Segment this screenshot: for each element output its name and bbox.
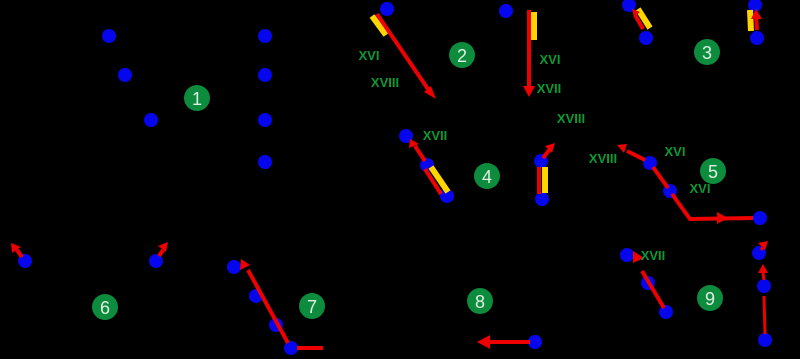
- red arrow 5a: [617, 144, 645, 160]
- ball 7d: [284, 341, 298, 355]
- step marker 8: [467, 288, 493, 314]
- ball 9b: [641, 276, 655, 290]
- step marker 9: [697, 285, 723, 311]
- ball 3c: [748, 0, 762, 12]
- yellow trail 3a: [638, 9, 650, 28]
- red path 5c: [672, 194, 753, 219]
- svg-text:XVI: XVI: [359, 48, 380, 63]
- ball 9a: [620, 248, 634, 262]
- ball 1g: [258, 155, 272, 169]
- ball 1a: [102, 29, 116, 43]
- step marker 5: [700, 158, 726, 184]
- yellow trail 4a: [431, 167, 448, 192]
- red arrow 2a: [377, 14, 436, 99]
- red line 7b: [297, 346, 323, 350]
- ball 7c: [269, 318, 283, 332]
- svg-text:XVIII: XVIII: [589, 151, 617, 166]
- ball 3d: [750, 31, 764, 45]
- red arrow 7a: [240, 259, 288, 343]
- red arrow 3b: [751, 9, 762, 30]
- svg-text:XVI: XVI: [690, 181, 711, 196]
- step marker 6: [92, 294, 118, 320]
- ball 7b: [249, 289, 263, 303]
- red arrow 9a: [633, 251, 664, 308]
- step marker 7: [299, 293, 325, 319]
- step marker 2: [449, 42, 475, 68]
- svg-text:6: 6: [100, 298, 110, 318]
- ball 5c: [753, 211, 767, 225]
- ball 1f: [258, 113, 272, 127]
- svg-text:4: 4: [482, 167, 492, 187]
- svg-text:XVII: XVII: [537, 81, 562, 96]
- ball 3b: [639, 31, 653, 45]
- red arrow 6a: [11, 243, 22, 257]
- ball 9d: [758, 333, 772, 347]
- red arrow 9d: [758, 241, 768, 250]
- red arrow 6b: [158, 242, 168, 256]
- yellow trail 2a: [372, 16, 386, 35]
- red line 5b: [653, 167, 668, 188]
- svg-text:XVII: XVII: [641, 248, 666, 263]
- ball 5a: [643, 156, 657, 170]
- ball 7a: [227, 260, 241, 274]
- ball 1b: [118, 68, 132, 82]
- ball 1d: [258, 29, 272, 43]
- step marker 1: [184, 85, 210, 111]
- ball 1e: [258, 68, 272, 82]
- yellow trail 4b: [542, 167, 548, 193]
- red arrow 8a: [477, 335, 530, 349]
- red trail line 4b: [537, 167, 541, 194]
- svg-text:8: 8: [475, 292, 485, 312]
- svg-text:2: 2: [457, 46, 467, 66]
- svg-text:XVII: XVII: [423, 128, 448, 143]
- ball 2b: [499, 4, 513, 18]
- svg-text:1: 1: [192, 89, 202, 109]
- ball 3a: [622, 0, 636, 12]
- ball 4a: [399, 129, 413, 143]
- red trail line 4a: [425, 169, 441, 194]
- ball 1c: [144, 113, 158, 127]
- svg-text:XVI: XVI: [540, 52, 561, 67]
- svg-text:5: 5: [708, 162, 718, 182]
- svg-text:XVIII: XVIII: [557, 111, 585, 126]
- red arrow 9c: [758, 264, 768, 280]
- step marker 3: [694, 39, 720, 65]
- red line 9b: [764, 296, 765, 334]
- ball 5b: [663, 184, 677, 198]
- svg-text:7: 7: [307, 297, 317, 317]
- ball 4d: [534, 154, 548, 168]
- ball 9e: [757, 279, 771, 293]
- yellow trail 2b: [531, 12, 537, 40]
- ball 6a: [18, 254, 32, 268]
- red arrow 2b: [523, 10, 535, 97]
- ball 4b: [420, 158, 434, 172]
- red arrow 4a: [409, 139, 425, 161]
- ball 4e: [535, 192, 549, 206]
- red arrow 4b: [543, 143, 555, 158]
- svg-text:9: 9: [705, 289, 715, 309]
- ball 6b: [149, 254, 163, 268]
- step marker 4: [474, 163, 500, 189]
- red arrow 3a: [632, 9, 643, 29]
- svg-text:XVI: XVI: [665, 144, 686, 159]
- ball 2a: [380, 2, 394, 16]
- ball 9f: [752, 246, 766, 260]
- ball 4c: [440, 189, 454, 203]
- ball 8a: [528, 335, 542, 349]
- red arrowhead 5c: [717, 212, 728, 224]
- svg-text:XVIII: XVIII: [371, 75, 399, 90]
- yellow trail 3b: [750, 10, 751, 31]
- svg-text:3: 3: [702, 43, 712, 63]
- ball 9c: [659, 305, 673, 319]
